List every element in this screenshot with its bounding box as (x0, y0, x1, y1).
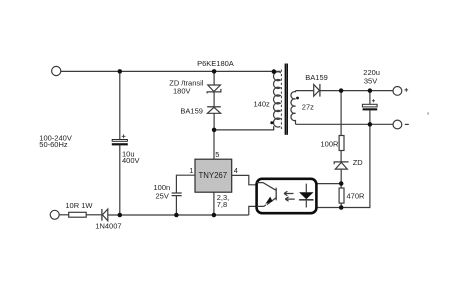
svg-text:180V: 180V (173, 87, 191, 96)
svg-text:25V: 25V (156, 191, 169, 200)
svg-text:BA159: BA159 (305, 73, 328, 82)
svg-text:1: 1 (189, 166, 193, 175)
svg-text:470R: 470R (347, 191, 366, 200)
svg-text:4: 4 (234, 166, 238, 175)
svg-text:7,8: 7,8 (217, 200, 227, 209)
svg-text:1N4007: 1N4007 (95, 222, 121, 231)
svg-text:27z: 27z (302, 103, 314, 112)
svg-text:BA159: BA159 (180, 106, 203, 115)
svg-text:5: 5 (215, 150, 219, 159)
svg-text:100R: 100R (321, 140, 340, 149)
svg-text:TNY267: TNY267 (199, 171, 228, 180)
svg-text:400V: 400V (122, 156, 140, 165)
svg-text:35V: 35V (364, 76, 377, 85)
svg-text:P6KE180A: P6KE180A (197, 59, 234, 68)
svg-text:50-60Hz: 50-60Hz (39, 140, 68, 149)
svg-text:140z: 140z (254, 100, 271, 109)
svg-text:ZD: ZD (353, 158, 364, 167)
svg-text:10R 1W: 10R 1W (65, 201, 93, 210)
